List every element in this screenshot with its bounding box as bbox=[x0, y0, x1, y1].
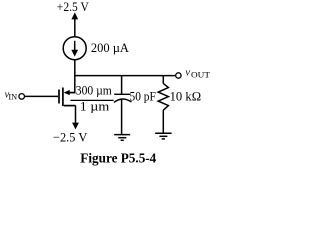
capacitor bottom lead bbox=[121, 99, 123, 134]
wire: output node to vOUT terminal bbox=[74, 75, 175, 77]
current source arrow bbox=[71, 41, 78, 57]
resistor R bbox=[158, 83, 168, 110]
label W/L = 300 µm over 1 µm bbox=[70, 82, 113, 113]
ground (resistor) bbox=[155, 133, 171, 139]
label vOUT bbox=[185, 68, 210, 80]
svg-text:IN: IN bbox=[8, 92, 17, 101]
ground (capacitor) bbox=[114, 135, 130, 141]
svg-text:+2.5 V: +2.5 V bbox=[57, 0, 90, 14]
svg-text:50 pF: 50 pF bbox=[130, 88, 156, 103]
svg-text:v: v bbox=[185, 68, 190, 79]
terminal vIN bbox=[19, 94, 25, 100]
svg-text:1 µm: 1 µm bbox=[80, 98, 110, 113]
svg-text:200 µA: 200 µA bbox=[91, 40, 130, 55]
+2.5 V supply arrow bbox=[71, 12, 78, 36]
svg-text:10 kΩ: 10 kΩ bbox=[170, 89, 202, 104]
-2.5 V supply arrow bbox=[72, 123, 79, 130]
wire: transistor drain to -2.5 V supply arrow bbox=[75, 106, 77, 125]
current source I1 bbox=[63, 37, 86, 60]
terminal vOUT bbox=[176, 73, 181, 78]
wire: current source to transistor source lead bbox=[74, 60, 76, 94]
resistor bottom lead bbox=[162, 110, 164, 133]
resistor top lead bbox=[162, 76, 164, 84]
svg-text:OUT: OUT bbox=[191, 70, 210, 79]
capacitor C bbox=[114, 94, 132, 102]
svg-text:300 µm: 300 µm bbox=[76, 82, 112, 97]
label vIN bbox=[5, 89, 18, 101]
capacitor top lead bbox=[121, 76, 123, 94]
wire: vIN to gate bbox=[25, 95, 59, 97]
svg-text:Figure P5.5-4: Figure P5.5-4 bbox=[80, 150, 156, 165]
svg-text:−2.5 V: −2.5 V bbox=[53, 130, 88, 145]
transistor M1 bbox=[59, 88, 76, 107]
